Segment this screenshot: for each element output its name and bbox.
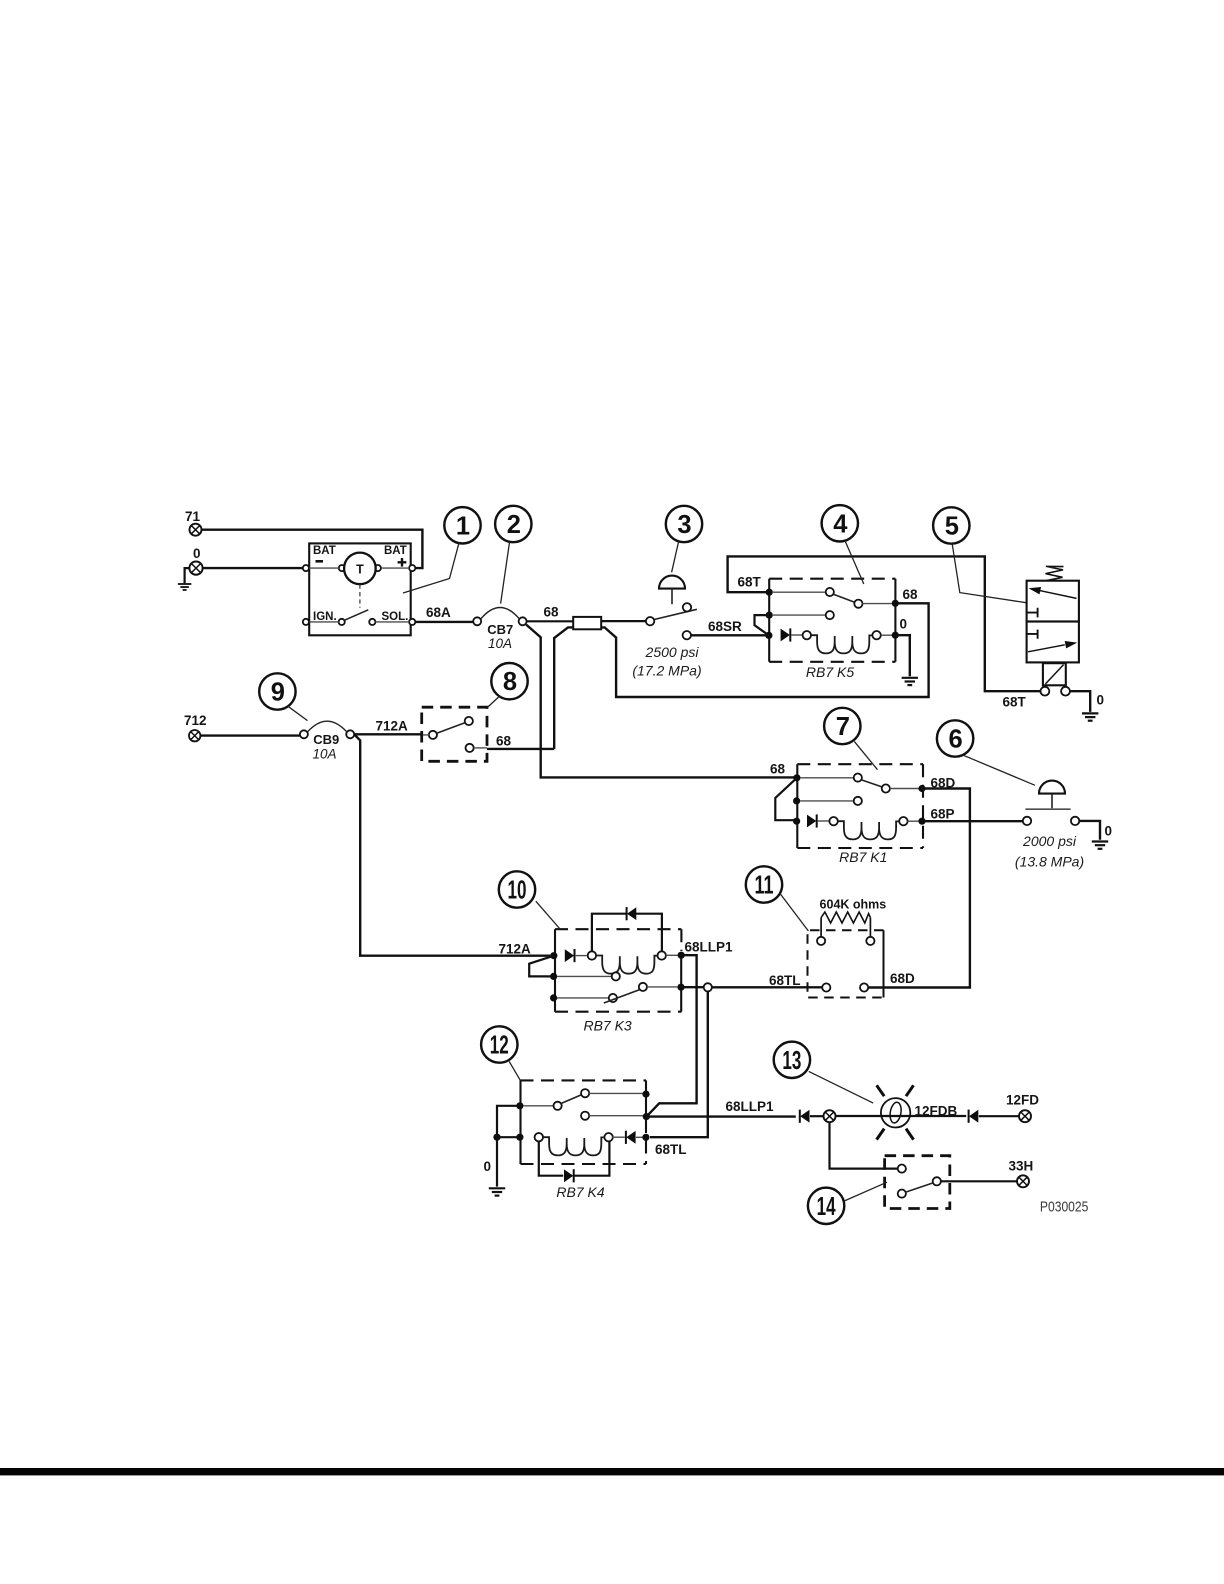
svg-text:68: 68 (544, 605, 560, 620)
svg-text:RB7 K1: RB7 K1 (839, 849, 887, 865)
svg-text:0: 0 (193, 546, 201, 561)
svg-text:6: 6 (949, 726, 963, 754)
svg-text:10: 10 (508, 877, 527, 905)
svg-text:9: 9 (271, 679, 285, 707)
svg-text:14: 14 (817, 1193, 837, 1221)
svg-text:IGN.: IGN. (313, 611, 337, 623)
svg-text:P030025: P030025 (1040, 1199, 1089, 1216)
svg-text:12: 12 (490, 1032, 509, 1060)
svg-text:CB9: CB9 (313, 732, 339, 747)
svg-text:0: 0 (1105, 824, 1113, 839)
svg-text:CB7: CB7 (487, 622, 513, 637)
svg-text:RB7 K5: RB7 K5 (806, 664, 854, 680)
svg-text:2000 psi: 2000 psi (1022, 833, 1077, 849)
svg-text:68: 68 (770, 762, 786, 777)
svg-text:604K ohms: 604K ohms (820, 898, 887, 912)
svg-text:68: 68 (903, 587, 919, 602)
svg-text:BAT: BAT (384, 545, 407, 557)
svg-text:1: 1 (456, 512, 470, 540)
svg-text:0: 0 (1097, 693, 1105, 708)
svg-text:68: 68 (496, 734, 512, 749)
svg-text:11: 11 (755, 872, 774, 900)
svg-text:10A: 10A (488, 636, 512, 651)
svg-text:68T: 68T (1003, 695, 1027, 710)
svg-text:71: 71 (185, 509, 201, 524)
svg-text:RB7 K3: RB7 K3 (583, 1018, 631, 1034)
svg-text:0: 0 (484, 1159, 492, 1174)
svg-text:13: 13 (782, 1047, 801, 1075)
svg-text:2500 psi: 2500 psi (645, 644, 700, 660)
svg-text:68T: 68T (738, 575, 762, 590)
svg-text:712A: 712A (499, 942, 532, 957)
svg-text:68A: 68A (426, 605, 451, 620)
svg-text:712A: 712A (376, 719, 409, 734)
svg-text:68TL: 68TL (655, 1142, 687, 1157)
svg-text:SOL.: SOL. (382, 611, 409, 623)
svg-text:(13.8 MPa): (13.8 MPa) (1015, 853, 1084, 869)
svg-text:33H: 33H (1009, 1159, 1034, 1174)
svg-text:0: 0 (900, 617, 908, 632)
svg-text:68LLP1: 68LLP1 (685, 940, 734, 955)
svg-text:2: 2 (507, 511, 521, 539)
svg-text:712: 712 (184, 713, 207, 728)
svg-text:68D: 68D (931, 776, 956, 791)
svg-text:12FDB: 12FDB (915, 1104, 958, 1119)
svg-text:RB7 K4: RB7 K4 (556, 1184, 604, 1200)
svg-text:BAT: BAT (313, 545, 336, 557)
svg-text:68P: 68P (931, 807, 955, 822)
svg-text:7: 7 (836, 713, 850, 741)
svg-text:12FD: 12FD (1006, 1093, 1039, 1108)
svg-text:10A: 10A (312, 747, 336, 762)
svg-text:68D: 68D (890, 971, 915, 986)
svg-text:4: 4 (833, 510, 848, 538)
svg-text:3: 3 (677, 511, 691, 539)
svg-text:5: 5 (945, 513, 959, 541)
svg-text:68TL: 68TL (769, 973, 801, 988)
svg-text:68LLP1: 68LLP1 (726, 1099, 775, 1114)
svg-text:8: 8 (503, 668, 517, 696)
svg-text:68SR: 68SR (708, 619, 742, 634)
svg-text:T: T (356, 563, 364, 577)
svg-text:(17.2 MPa): (17.2 MPa) (632, 662, 701, 678)
